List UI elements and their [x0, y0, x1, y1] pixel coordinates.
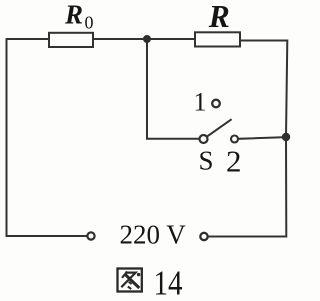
- svg-text:R: R: [64, 0, 83, 30]
- svg-text:1: 1: [194, 88, 207, 117]
- svg-text:S: S: [199, 146, 214, 176]
- svg-text:220 V: 220 V: [120, 220, 187, 250]
- svg-text:0: 0: [85, 13, 94, 33]
- svg-text:2: 2: [226, 144, 242, 179]
- svg-text:R: R: [208, 0, 230, 34]
- svg-text:14: 14: [154, 264, 183, 301]
